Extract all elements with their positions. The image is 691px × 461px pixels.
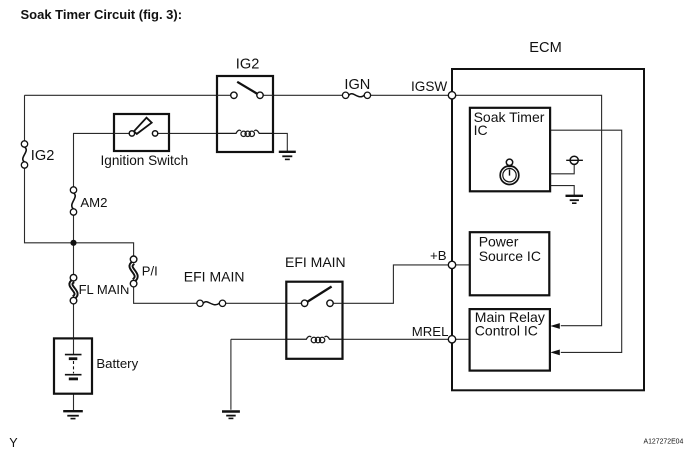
fuse IGN bbox=[342, 90, 371, 101]
svg-text:Ignition Switch: Ignition Switch bbox=[101, 153, 189, 168]
svg-text:+B: +B bbox=[430, 248, 447, 263]
ignition switch key lever bbox=[134, 118, 152, 134]
svg-text:IG2: IG2 bbox=[31, 148, 55, 164]
wire: EFI relay right contact to +B node at ECM bbox=[333, 265, 448, 303]
svg-text:Soak Timer Circuit (fig. 3):: Soak Timer Circuit (fig. 3): bbox=[21, 7, 183, 22]
Soak Timer IC box bbox=[470, 108, 550, 192]
wire: MREL node into Main Relay Control IC bbox=[456, 338, 470, 340]
relay IG2 coil bbox=[217, 130, 273, 136]
relay EFI MAIN coil bbox=[286, 336, 342, 342]
wire: soak timer pin to ground bbox=[550, 186, 574, 196]
relay EFI MAIN blade bbox=[308, 287, 332, 302]
node IGSW on ECM edge bbox=[448, 92, 455, 99]
svg-text:Power: Power bbox=[479, 233, 519, 249]
svg-text:IG2: IG2 bbox=[236, 56, 260, 72]
wire: EFI relay coil left side down to ground bbox=[231, 339, 286, 410]
node MREL on ECM edge bbox=[448, 336, 455, 343]
svg-text:IC: IC bbox=[474, 122, 488, 138]
fuse EFI MAIN bbox=[197, 298, 227, 309]
fuse IG2 (left column) bbox=[19, 141, 30, 168]
battery box bbox=[54, 338, 92, 393]
svg-text:ECM: ECM bbox=[529, 40, 561, 56]
svg-text:Y: Y bbox=[9, 436, 18, 450]
soak timer stopwatch icon bbox=[500, 159, 519, 184]
ground (soak timer pin) bbox=[566, 196, 584, 203]
ECM box bbox=[452, 69, 644, 390]
fusible link P/I bbox=[127, 256, 140, 288]
battery internal wire top bbox=[73, 338, 75, 354]
ground (EFI MAIN relay coil) bbox=[222, 412, 240, 419]
svg-text:EFI MAIN: EFI MAIN bbox=[184, 269, 245, 285]
svg-text:AM2: AM2 bbox=[80, 195, 107, 210]
terminal circle at soak timer pin bbox=[570, 156, 578, 164]
svg-text:MREL: MREL bbox=[412, 324, 449, 339]
relay IG2 contact right bbox=[257, 92, 263, 98]
ground (IG2 relay coil) bbox=[279, 152, 296, 160]
svg-text:FL MAIN: FL MAIN bbox=[79, 282, 130, 297]
arrow into Main Relay Control IC (from IGSW wire) bbox=[550, 323, 560, 329]
svg-text:A127272E04: A127272E04 bbox=[644, 439, 684, 446]
svg-text:Battery: Battery bbox=[96, 356, 138, 371]
relay IG2 contact left bbox=[231, 92, 237, 98]
node +B on ECM edge bbox=[448, 261, 455, 268]
relay EFI MAIN contact right bbox=[327, 300, 333, 306]
wire: Soak Timer IC output down to Main Relay Control IC (arrow 2) bbox=[550, 130, 622, 352]
relay EFI MAIN switch wires inside box bbox=[286, 302, 342, 304]
svg-text:Source IC: Source IC bbox=[479, 248, 541, 264]
fuse AM2 bbox=[68, 187, 79, 216]
ignition switch box bbox=[114, 114, 169, 151]
junction node (AM2 / FL MAIN / P-I) bbox=[70, 240, 76, 246]
wire: ignition switch left contact to center column bbox=[74, 133, 129, 242]
wire: +B node into Power Source IC bbox=[456, 264, 470, 266]
wire: IGSW node across ECM down to Main Relay Control IC (arrow 1) bbox=[452, 95, 602, 325]
wire: IG2 relay right contact to IGSW node bbox=[263, 94, 448, 96]
relay IG2 switch wires inside box bbox=[217, 94, 273, 96]
wire: EFI relay coil to MREL node at ECM bbox=[286, 338, 448, 340]
ignition switch internal wires bbox=[114, 132, 169, 134]
svg-text:IGSW: IGSW bbox=[411, 79, 447, 94]
fusible link FL MAIN bbox=[67, 274, 80, 304]
battery cell plates bbox=[65, 355, 82, 379]
arrow into Main Relay Control IC (from Soak Timer wire) bbox=[550, 350, 560, 356]
relay EFI MAIN contact left bbox=[301, 300, 307, 306]
svg-text:IGN: IGN bbox=[344, 77, 370, 93]
svg-text:EFI MAIN: EFI MAIN bbox=[285, 254, 346, 270]
wire: top IGN net from left column to IG2 relay left contact bbox=[25, 94, 231, 96]
ignition switch contact left bbox=[129, 131, 134, 136]
relay IG2 box bbox=[217, 76, 273, 152]
Main Relay Control IC box bbox=[470, 309, 550, 371]
relay EFI MAIN box bbox=[286, 282, 342, 359]
svg-text:Control IC: Control IC bbox=[475, 322, 538, 338]
wire: left column down from top wire to junction row bbox=[25, 95, 74, 243]
wire: soak timer pin to terminal circle bbox=[550, 164, 574, 173]
wire: ignition switch right contact to IG2 relay coil and ground stub bbox=[159, 133, 288, 151]
relay IG2 blade bbox=[237, 82, 257, 94]
wire: battery bottom to ground bbox=[73, 380, 75, 411]
ignition switch contact right bbox=[152, 131, 157, 136]
wire: junction to P/I branch and down to EFI MAIN fuse row bbox=[74, 243, 302, 303]
wire: center column junction down to battery bbox=[73, 243, 75, 355]
ground (battery) bbox=[63, 411, 83, 418]
Power Source IC box bbox=[470, 232, 550, 295]
svg-text:P/I: P/I bbox=[142, 264, 158, 279]
